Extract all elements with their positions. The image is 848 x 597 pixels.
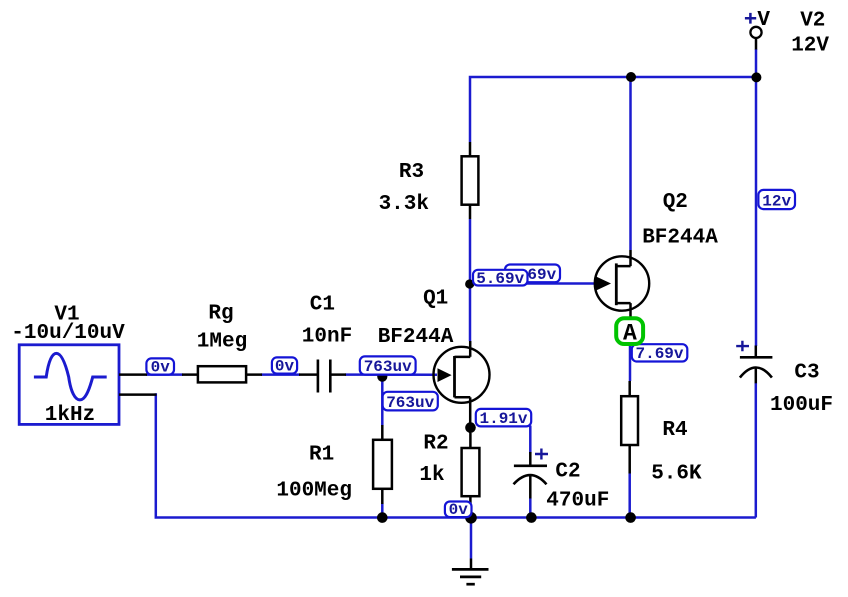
svg-text:0v: 0v — [275, 357, 295, 375]
transistor Q2 circle — [595, 256, 649, 310]
capacitor C3 bottom stub — [755, 368, 758, 384]
capacitor C3 top plate — [740, 356, 773, 359]
svg-text:100Meg: 100Meg — [276, 480, 352, 503]
resistor R1 body — [373, 440, 392, 489]
power terminal stub — [755, 38, 758, 49]
V1 bottom terminal lead — [119, 393, 157, 396]
transistor Q1 gate arrow — [438, 368, 452, 382]
resistor R3 leads — [469, 142, 472, 219]
voltage label 763uv (gate node) — [360, 356, 416, 376]
ground symbol stem — [470, 559, 473, 570]
wire: V1 bottom lead to ground rail corner — [156, 393, 756, 517]
svg-text:1Meg: 1Meg — [197, 331, 247, 354]
resistor R2 leads — [469, 433, 472, 507]
capacitor C2 top plate — [514, 464, 547, 467]
svg-text:Q1: Q1 — [423, 288, 448, 311]
wire: V1 output to Rg — [146, 373, 183, 376]
wire: rail to ground symbol — [470, 519, 473, 559]
svg-text:10nF: 10nF — [302, 326, 352, 349]
node: junction dot bottom rail at ground — [465, 512, 477, 524]
resistor Rg leads — [182, 373, 262, 376]
capacitor C3 plus sign — [736, 341, 749, 352]
node: junction dot bottom rail at R4 — [625, 512, 636, 523]
transistor Q2 drain lead — [629, 250, 632, 266]
voltage label 7.69v (node A) — [632, 344, 688, 363]
svg-text:100uF: 100uF — [770, 394, 833, 417]
voltage label 763uv (second) — [383, 392, 438, 412]
wire: V2 column down to C3 — [755, 49, 758, 346]
wire: C2 bottom to rail — [529, 499, 532, 518]
wire: top rail from R3 column to +V column — [470, 77, 756, 142]
svg-text:5.69v: 5.69v — [476, 270, 524, 288]
V1 top terminal lead — [119, 373, 147, 376]
capacitor C2 plus sign — [535, 449, 548, 460]
resistor R4 leads — [628, 381, 631, 474]
capacitor C1 plates — [318, 360, 330, 393]
voltage label 1.91v (source node) — [476, 409, 531, 428]
capacitor C1 leads — [299, 373, 346, 376]
wire: node to Q2 gate — [470, 282, 599, 285]
svg-text:Q2: Q2 — [663, 191, 688, 214]
resistor R4 body — [621, 396, 638, 445]
power terminal plus sign — [745, 13, 756, 24]
wire: R3 bottom to Q1 drain (node 5.69v) — [469, 219, 472, 341]
svg-text:69v: 69v — [527, 266, 556, 284]
node: junction dot at 763uv node — [377, 372, 387, 382]
svg-text:V: V — [757, 9, 770, 32]
transistor Q2 source lead — [629, 303, 632, 320]
svg-text:1k: 1k — [419, 464, 444, 487]
svg-text:12v: 12v — [762, 193, 791, 211]
voltage label 0v (after Rg) — [272, 357, 297, 375]
node: junction dot bottom rail at C2 — [526, 512, 537, 523]
node: junction dot top rail at V2 — [751, 72, 761, 82]
resistor Rg body — [198, 366, 246, 382]
transistor Q1 channel bar — [453, 356, 456, 397]
transistor Q2 drain/source inner stubs — [616, 266, 630, 303]
svg-text:3.3k: 3.3k — [379, 193, 429, 216]
svg-text:763uv: 763uv — [386, 394, 434, 412]
svg-text:-10u/10uV: -10u/10uV — [11, 322, 125, 345]
voltage source V1 box — [19, 345, 119, 425]
transistor Q2 channel bar — [615, 263, 618, 305]
svg-text:R4: R4 — [662, 419, 687, 442]
svg-text:12V: 12V — [791, 35, 829, 58]
svg-text:0v: 0v — [151, 358, 171, 376]
capacitor C2 curved plate — [514, 475, 547, 484]
wire: node 1.91v to C2 top — [529, 426, 532, 454]
voltage label 69v (hidden behind 5.69v) — [505, 265, 560, 285]
voltage label 12v (supply) — [758, 190, 795, 211]
resistor R1 leads — [381, 425, 384, 504]
svg-text:1.91v: 1.91v — [479, 410, 527, 428]
svg-text:C2: C2 — [555, 460, 580, 483]
transistor Q2 gate arrow — [595, 276, 611, 291]
svg-text:763uv: 763uv — [364, 358, 412, 376]
transistor Q1 drain lead — [469, 341, 472, 357]
voltage label 0v (ground rail) — [445, 501, 472, 519]
svg-text:1kHz: 1kHz — [45, 404, 95, 427]
resistor R2 body — [462, 448, 480, 496]
node: junction dot bottom rail at R1 — [377, 512, 388, 523]
svg-text:C1: C1 — [310, 294, 335, 317]
ground symbol bars — [452, 568, 489, 571]
wire: Q2 drain to top rail — [629, 77, 632, 250]
wire: R4 bottom to rail — [628, 474, 631, 518]
svg-text:C3: C3 — [794, 361, 819, 384]
transistor Q1 source lead — [469, 397, 472, 433]
transistor Q1 drain/source inner stubs — [455, 357, 471, 397]
capacitor C3 curved plate — [740, 368, 772, 378]
power terminal +V circle — [750, 27, 761, 38]
node: junction dot top rail at Q2 drain — [626, 72, 636, 82]
capacitor C2 top lead — [529, 452, 532, 466]
svg-text:7.69v: 7.69v — [635, 345, 683, 363]
voltage label 5.69v (drain node) — [473, 270, 528, 288]
svg-text:0v: 0v — [449, 501, 469, 519]
V1 sine waveform — [34, 353, 107, 400]
transistor Q1 circle — [434, 347, 490, 403]
svg-text:BF244A: BF244A — [642, 226, 718, 249]
svg-text:Rg: Rg — [208, 303, 233, 326]
svg-text:R3: R3 — [399, 161, 424, 184]
capacitor C3 top lead — [755, 346, 758, 358]
wire: node 763uv down to R1 — [381, 377, 384, 426]
node: junction dot at 1.91v node — [465, 422, 476, 433]
wire: R1 bottom to rail — [381, 504, 384, 518]
svg-text:A: A — [623, 320, 637, 346]
wire: C3 bottom to ground rail — [755, 383, 758, 518]
resistor R3 body — [462, 156, 479, 204]
svg-text:V2: V2 — [800, 10, 825, 33]
wire: Rg to C1 — [261, 373, 300, 376]
wire: node A to R4 — [629, 343, 632, 381]
svg-text:R2: R2 — [423, 433, 448, 456]
wire: C1 to Q1 gate — [345, 373, 437, 376]
node: junction dot at 5.69v node — [465, 279, 474, 288]
node A green marker — [616, 318, 643, 346]
capacitor C2 bottom stub — [529, 475, 532, 499]
svg-text:5.6K: 5.6K — [651, 463, 702, 486]
svg-text:470uF: 470uF — [546, 490, 609, 513]
voltage label 0v (V1 output) — [146, 358, 174, 376]
svg-text:BF244A: BF244A — [378, 326, 454, 349]
svg-text:R1: R1 — [309, 443, 334, 466]
wire: R2 bottom to rail — [469, 507, 472, 518]
